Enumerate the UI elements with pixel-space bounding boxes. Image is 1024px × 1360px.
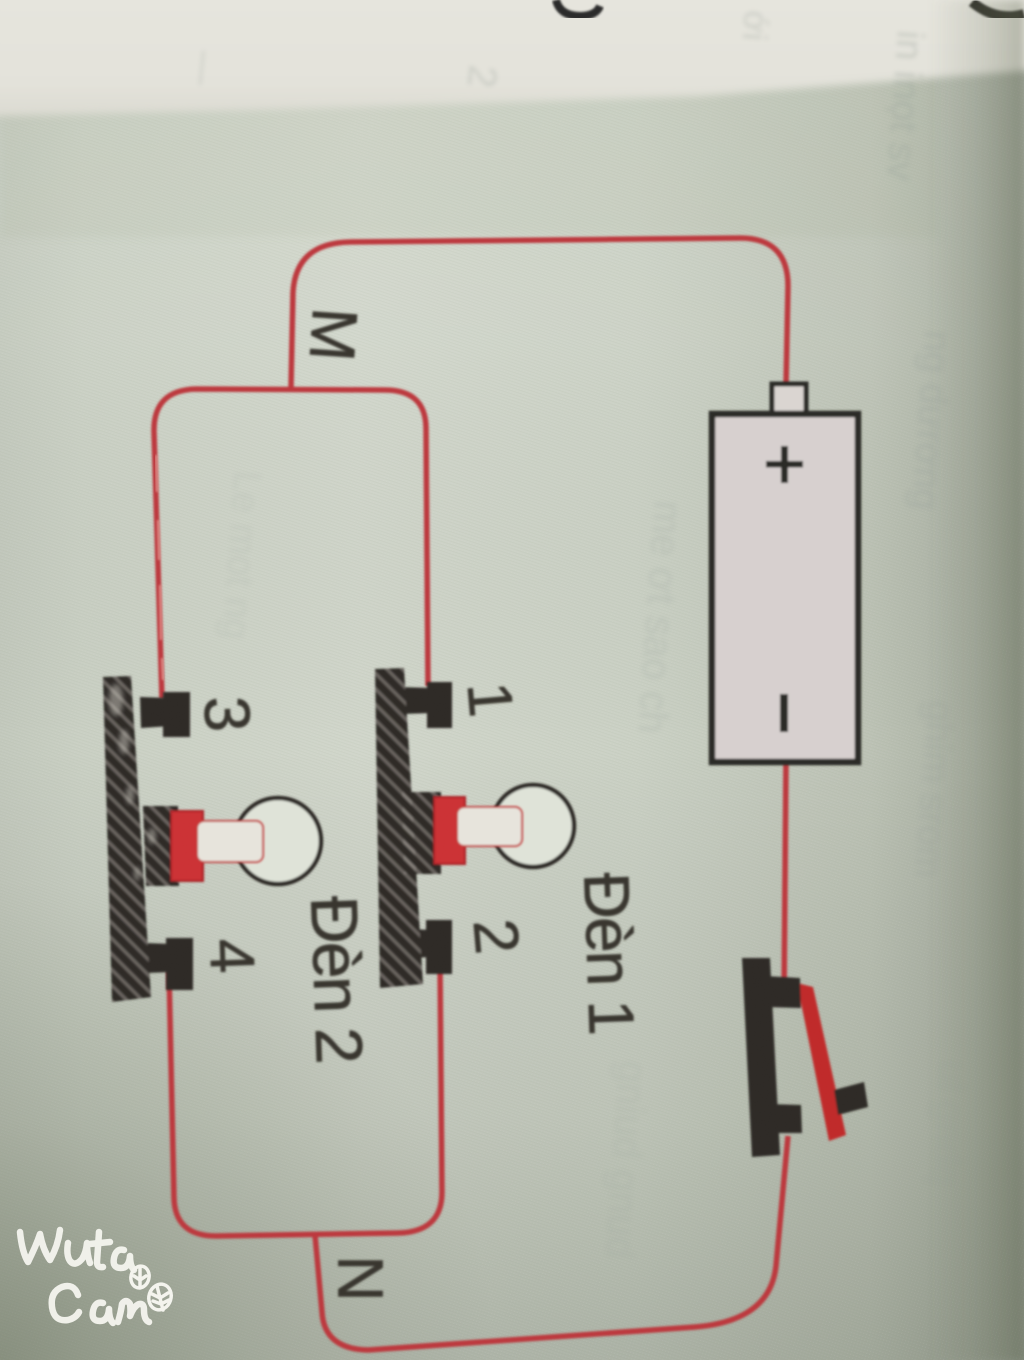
lamp holder block L2 [103,676,193,1002]
lamp L1 bulb [492,785,574,867]
battery body [712,414,858,762]
right edge dark band [930,0,1024,1360]
lamp L2 bulb [235,798,321,884]
battery B1 [712,384,858,762]
wire: node N down to outer bottom loop and up to switch [315,1136,788,1350]
stray dark pen curl top right [972,2,1024,16]
switch fixed contact [834,1082,868,1115]
stray dark pen curl top centre [556,0,600,16]
wire highlight reflections on left bus edge [156,455,163,680]
moire texture band along page top edge [0,74,940,238]
ghost show-through text [183,9,972,1259]
wire: top bus from node M to lamp terminals 1 and 3 [154,389,428,699]
bright top strip above page edge [0,0,1024,116]
wire: battery + terminal up and across to node M [291,238,788,388]
lamp L1 socket [434,797,522,864]
watermark leaf icons [129,1264,175,1313]
switch lever (red, open position) [797,983,846,1141]
lamp holder block L1 [375,668,452,988]
battery + label [766,446,803,483]
battery positive terminal nub [772,384,806,417]
switch S1 (open) [742,958,868,1157]
battery - label [780,694,788,732]
watermark WutaCam [20,1230,149,1323]
wire: bottom bus joining lamp terminals 4 and 2 at node N [169,962,442,1236]
lamp L2 socket [171,811,263,881]
switch frame bar [742,958,868,1157]
wire: battery - terminal down to switch [784,761,786,1000]
